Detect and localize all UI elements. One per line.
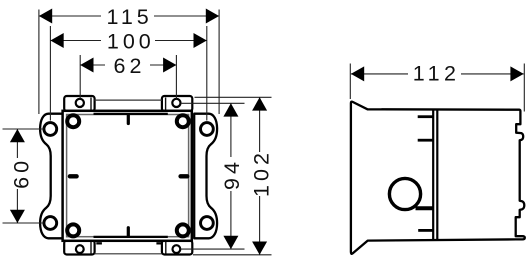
side view: inner wall left line (432, 111, 434, 240)
side view: hose circle (389, 178, 420, 209)
front view: left ear plate with two lobes (40, 114, 63, 239)
front view: left side stub (70, 174, 77, 178)
side view: clip tick middle (418, 139, 433, 142)
dimension 100: dimension line with arrows (50, 40, 206, 42)
dimension 102: dimension line with arrows (259, 97, 261, 255)
dimension 115: right extension line (218, 10, 220, 115)
front view: left ear bottom hole (44, 217, 57, 230)
dimension 62: left extension line (79, 55, 81, 99)
dimension 94: dimension line with arrows (230, 103, 232, 249)
front view: top-left mounting tab (64, 96, 94, 111)
dimension 94: top extension line (181, 102, 245, 104)
front view: box outer square (63, 111, 192, 241)
front view: top-right corner boss (177, 115, 189, 127)
dimension 100: left extension line (49, 26, 51, 121)
dimension 115: left extension line (38, 10, 40, 115)
dimension 112: left extension line (349, 64, 351, 100)
front view: top-left tab hole (76, 99, 84, 107)
front view: bottom-left tab hole (76, 245, 84, 253)
front view: left bottom nub (96, 242, 102, 244)
front view: top-left corner boss (67, 115, 79, 127)
dimension 60: bottom extension line (3, 222, 44, 224)
dimension 115: dimension line with arrows (39, 15, 219, 17)
dimension 100: right extension line (206, 26, 208, 121)
front view: top-right tab inner line (165, 98, 167, 111)
dimension 62: right extension line (175, 55, 177, 99)
front view: bottom-right mounting tab (162, 241, 192, 255)
front view: top-left tab inner line (90, 98, 92, 111)
front view: bottom-left tab inner line (90, 242, 92, 254)
svg-text:115: 115 (106, 5, 152, 29)
front view: right bottom nub (156, 242, 162, 244)
front view: bottom-right tab inner line (165, 242, 167, 254)
front view: top-right mounting tab (162, 96, 192, 111)
front view: bracket bar between bottom tabs (95, 253, 163, 255)
front view: right ear plate with two lobes (194, 114, 217, 239)
front view: bracket bar between top tabs (95, 99, 163, 101)
front view: bracket edge segment on bottom flange (94, 236, 168, 238)
side view: clip tick upper (418, 115, 433, 118)
dimension 112: right extension line (523, 64, 525, 112)
dimension 102: top extension line (195, 96, 272, 98)
front view: top-right tab hole (172, 99, 180, 107)
dimension 60: top extension line (3, 128, 44, 130)
dimension 102: bottom extension line (193, 254, 272, 256)
front view: bottom-left corner boss (67, 224, 79, 236)
front view: right side stub (181, 174, 188, 178)
svg-text:94: 94 (220, 158, 244, 190)
svg-text:60: 60 (9, 157, 33, 189)
front view: left ear top hole (44, 123, 57, 136)
front view: bottom-left mounting tab (64, 241, 94, 255)
svg-text:112: 112 (413, 61, 461, 85)
front view: right ear bottom hole (201, 217, 214, 230)
front view: bottom-right corner boss (177, 224, 189, 236)
side view: circle stem bar (416, 206, 434, 210)
side view: clip tick lower (418, 229, 433, 232)
front view: bracket edge segment on top flange (94, 113, 168, 115)
svg-text:62: 62 (114, 54, 146, 78)
front view: top center pin (127, 116, 130, 124)
dimension 112: dimension line with arrows (351, 73, 524, 75)
front view: inner flange square (gray) (67, 115, 189, 237)
svg-text:100: 100 (107, 29, 155, 53)
front view: bottom-right tab hole (173, 245, 181, 253)
front view: right ear top hole (201, 123, 214, 136)
side view: inner wall right line (436, 111, 438, 240)
front view: bottom center pin (127, 228, 130, 236)
dimension 60: dimension line with arrows (16, 129, 18, 223)
dimension 94: bottom extension line (181, 248, 245, 250)
side view: body outline (351, 102, 525, 254)
svg-text:102: 102 (250, 149, 274, 197)
dimension 62: dimension line with arrows (80, 64, 176, 66)
